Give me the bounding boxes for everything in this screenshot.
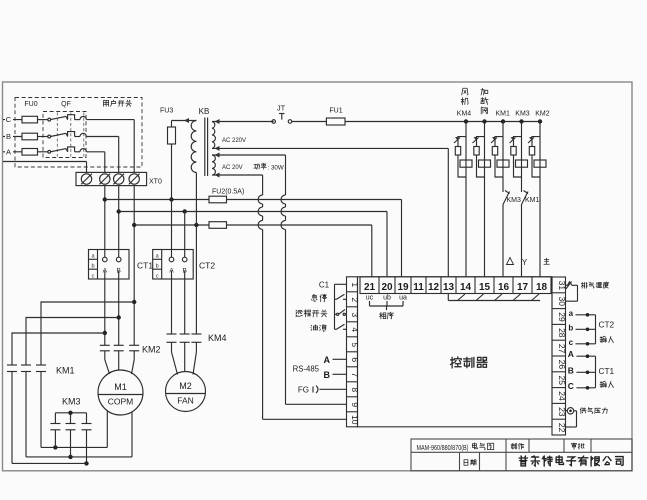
svg-text:27: 27 bbox=[557, 344, 567, 354]
svg-text:MAM-960/880/870(B): MAM-960/880/870(B) bbox=[417, 443, 469, 452]
svg-text:3: 3 bbox=[350, 312, 360, 317]
svg-text:5: 5 bbox=[350, 342, 360, 347]
svg-text:AC 220V: AC 220V bbox=[222, 138, 246, 144]
svg-text:b: b bbox=[91, 264, 94, 270]
svg-text:24: 24 bbox=[557, 391, 567, 401]
svg-text:KM1: KM1 bbox=[525, 197, 540, 204]
svg-text:c: c bbox=[569, 338, 574, 347]
svg-text:C1: C1 bbox=[319, 280, 330, 289]
svg-text:17: 17 bbox=[517, 282, 529, 293]
svg-text:M2: M2 bbox=[179, 381, 192, 391]
svg-text:12: 12 bbox=[428, 282, 440, 293]
svg-text:AC 20V: AC 20V bbox=[222, 165, 243, 171]
svg-text:CT1: CT1 bbox=[137, 261, 153, 271]
svg-text:2: 2 bbox=[350, 297, 360, 302]
svg-text:11: 11 bbox=[413, 282, 424, 293]
svg-text:KM3: KM3 bbox=[515, 111, 530, 118]
svg-text:A: A bbox=[568, 349, 574, 359]
svg-text:10: 10 bbox=[350, 415, 360, 425]
svg-text:: 30W: : 30W bbox=[268, 164, 284, 171]
svg-text:FG: FG bbox=[298, 385, 309, 394]
svg-text:FU3: FU3 bbox=[160, 108, 173, 115]
svg-text:KB: KB bbox=[199, 107, 210, 116]
svg-text:RS-485: RS-485 bbox=[293, 364, 320, 373]
svg-text:KM4: KM4 bbox=[457, 111, 472, 118]
svg-text:23: 23 bbox=[557, 407, 567, 417]
svg-text:8: 8 bbox=[350, 387, 360, 392]
svg-text:26: 26 bbox=[557, 360, 567, 370]
svg-text:FU0: FU0 bbox=[24, 101, 37, 108]
svg-text:uc: uc bbox=[366, 295, 374, 302]
svg-text:4: 4 bbox=[350, 327, 360, 332]
svg-text:28: 28 bbox=[557, 328, 567, 338]
svg-text:QF: QF bbox=[61, 101, 71, 108]
svg-text:b: b bbox=[156, 264, 159, 270]
svg-text:KM4: KM4 bbox=[208, 333, 227, 343]
svg-text:A: A bbox=[324, 355, 331, 365]
svg-text:A: A bbox=[6, 147, 11, 156]
svg-text:B: B bbox=[117, 268, 121, 275]
svg-text:KM1: KM1 bbox=[56, 366, 75, 376]
svg-text:19: 19 bbox=[397, 282, 409, 293]
svg-text:CT1: CT1 bbox=[599, 366, 615, 376]
svg-text:ub: ub bbox=[383, 295, 391, 302]
svg-text:7: 7 bbox=[350, 372, 360, 377]
svg-text:JT: JT bbox=[277, 104, 286, 113]
svg-text:21: 21 bbox=[364, 282, 376, 293]
svg-text:b: b bbox=[568, 323, 573, 332]
svg-text:1: 1 bbox=[350, 282, 360, 287]
svg-text:A: A bbox=[103, 268, 108, 275]
svg-text:C: C bbox=[6, 115, 12, 124]
svg-text:18: 18 bbox=[536, 282, 548, 293]
svg-text:KM2: KM2 bbox=[535, 111, 550, 118]
svg-text:M1: M1 bbox=[114, 382, 127, 392]
svg-text:B: B bbox=[6, 132, 11, 141]
svg-text:30: 30 bbox=[557, 296, 567, 306]
svg-text:C: C bbox=[568, 381, 574, 391]
svg-text:16: 16 bbox=[498, 282, 510, 293]
svg-text:FU1: FU1 bbox=[329, 108, 342, 115]
svg-text:9: 9 bbox=[350, 402, 360, 407]
svg-text:15: 15 bbox=[479, 282, 491, 293]
svg-text:B: B bbox=[568, 365, 574, 375]
svg-text:25: 25 bbox=[557, 375, 567, 385]
svg-text:20: 20 bbox=[381, 282, 393, 293]
svg-text:COPM: COPM bbox=[108, 397, 134, 407]
svg-text:c: c bbox=[156, 273, 159, 279]
svg-text:KM3: KM3 bbox=[62, 397, 81, 407]
svg-text:Y: Y bbox=[522, 258, 528, 267]
svg-text:KM1: KM1 bbox=[495, 111, 510, 118]
svg-text:31: 31 bbox=[557, 281, 567, 291]
svg-text:ua: ua bbox=[399, 295, 407, 302]
svg-text:6: 6 bbox=[350, 357, 360, 362]
svg-text:CT2: CT2 bbox=[199, 261, 215, 271]
svg-text:29: 29 bbox=[557, 312, 567, 322]
svg-text:CT2: CT2 bbox=[599, 320, 615, 330]
svg-text:c: c bbox=[92, 273, 95, 279]
svg-text:22: 22 bbox=[557, 423, 567, 433]
svg-text:FU2(0.5A): FU2(0.5A) bbox=[212, 188, 244, 195]
svg-text:13: 13 bbox=[443, 282, 455, 293]
svg-text:14: 14 bbox=[460, 282, 472, 293]
svg-text:XT0: XT0 bbox=[149, 179, 162, 186]
svg-text:a: a bbox=[569, 309, 574, 318]
svg-text:B: B bbox=[324, 370, 331, 380]
svg-text:KM2: KM2 bbox=[142, 345, 161, 355]
svg-text:FAN: FAN bbox=[177, 396, 194, 406]
svg-text:KM3: KM3 bbox=[507, 197, 522, 204]
